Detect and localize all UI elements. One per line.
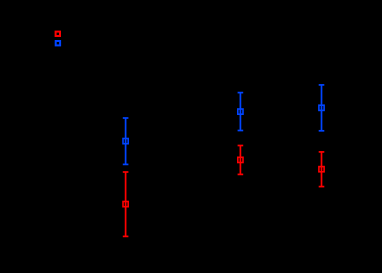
errorbar red series point 3 — [319, 152, 325, 187]
legend marker red square — [56, 32, 60, 36]
errorbar blue series point 2 — [238, 93, 244, 131]
errorbar blue series point 3 — [319, 85, 325, 131]
legend marker blue square — [56, 41, 60, 45]
errorbar blue series point 1 — [123, 118, 129, 164]
errorbar red series point 1 — [123, 172, 129, 236]
errorbar red series point 2 — [238, 146, 244, 175]
